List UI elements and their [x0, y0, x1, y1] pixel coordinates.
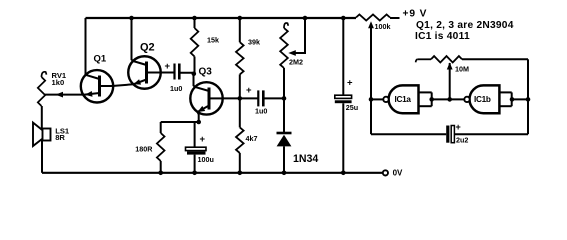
svg-text:1u0: 1u0	[255, 107, 267, 116]
wire Q3 base to node	[223, 97, 240, 99]
wire top rail right lead	[390, 17, 400, 19]
svg-text:Q2: Q2	[140, 41, 155, 53]
wire Q2 base to C 1u0	[158, 72, 175, 74]
wire Q2 collector riser	[132, 18, 134, 61]
svg-text:39k: 39k	[248, 38, 260, 47]
wire IC1b inputs to right node	[512, 98, 528, 100]
svg-text:8R: 8R	[55, 133, 65, 142]
diode 1N34	[283, 98, 285, 133]
svg-text:100k: 100k	[375, 22, 391, 31]
capacitor 25u	[342, 18, 344, 95]
svg-text:100u: 100u	[198, 155, 214, 164]
loudspeaker LS1 8R	[41, 141, 43, 173]
svg-text:0V: 0V	[393, 168, 403, 177]
transistor Q2	[128, 56, 161, 89]
capacitor 1u0 (coupling)	[173, 64, 175, 80]
wire 10M wiper riser	[449, 63, 451, 99]
wire RV1 to LS1	[41, 106, 43, 129]
wire emitter junction left	[161, 121, 199, 123]
svg-text:+: +	[165, 61, 171, 72]
wire IC1a input to IC1b output	[432, 98, 465, 100]
potentiometer 100k	[356, 15, 390, 21]
resistor 15k	[194, 18, 196, 28]
svg-text:Q1: Q1	[94, 53, 107, 64]
wire Q1 emitter to RV1	[45, 94, 85, 96]
resistor 180R	[160, 122, 162, 133]
svg-text:Q1, 2, 3 are 2N3904: Q1, 2, 3 are 2N3904	[416, 20, 514, 31]
svg-text:1u0: 1u0	[170, 84, 182, 93]
wire C 1u0 det to diode node	[263, 97, 284, 99]
potentiometer RV1 1k0	[42, 72, 47, 77]
capacitor 100u	[194, 122, 196, 147]
transistor Q1	[81, 70, 113, 102]
resistor 4k7	[239, 98, 241, 127]
wire Q3 collector riser	[194, 74, 196, 87]
wire Q1 base to Q2 emitter	[100, 84, 134, 86]
wire feedback bottom right	[454, 133, 528, 135]
svg-text:IC1 is 4011: IC1 is 4011	[415, 31, 470, 42]
op-amp gate IC1b	[469, 85, 499, 113]
wire right feedback vertical	[527, 59, 529, 134]
svg-text:+: +	[246, 85, 252, 96]
svg-text:1N34: 1N34	[293, 153, 318, 165]
wire IC1b inputs tie	[499, 91, 511, 93]
svg-text:Q3: Q3	[199, 67, 213, 78]
resistor 39k	[239, 18, 241, 42]
wire 2M2 wiper to rail	[296, 18, 306, 53]
svg-text:+: +	[347, 78, 353, 89]
wire IC1a output down	[370, 99, 372, 134]
svg-text:2u2: 2u2	[456, 135, 468, 144]
svg-text:+9 V: +9 V	[403, 8, 428, 19]
svg-text:4k7: 4k7	[246, 134, 258, 143]
svg-text:IC1b: IC1b	[474, 95, 491, 104]
svg-text:IC1a: IC1a	[395, 95, 412, 104]
op-amp gate IC1a	[389, 85, 419, 113]
wire +9V top rail	[86, 17, 357, 19]
svg-text:+: +	[200, 134, 206, 145]
wire 100k wiper riser	[370, 28, 372, 99]
transistor Q3	[190, 82, 222, 114]
capacitor 2u2	[446, 126, 449, 143]
svg-text:+: +	[456, 122, 461, 132]
wire 0V bottom rail	[42, 172, 383, 174]
0V terminal	[383, 170, 388, 175]
wire Q3 emitter riser	[198, 112, 199, 122]
capacitor 1u0 (detector)	[257, 90, 259, 106]
svg-text:10M: 10M	[455, 65, 469, 74]
wire feedback bottom left	[371, 133, 446, 135]
svg-text:180R: 180R	[135, 144, 153, 153]
wire node to C 1u0 det	[240, 97, 258, 99]
svg-text:25u: 25u	[346, 103, 358, 112]
resistor 10M	[416, 59, 418, 62]
wire Q1 collector riser	[85, 18, 87, 75]
potentiometer 2M2	[284, 23, 288, 28]
wire IC1a inputs tie	[419, 91, 432, 93]
wire IC1a output	[371, 98, 383, 100]
svg-text:15k: 15k	[207, 35, 219, 44]
wire C 1u0 to 15k junction	[179, 72, 193, 75]
svg-text:2M2: 2M2	[289, 58, 303, 67]
svg-text:1k0: 1k0	[52, 78, 65, 87]
